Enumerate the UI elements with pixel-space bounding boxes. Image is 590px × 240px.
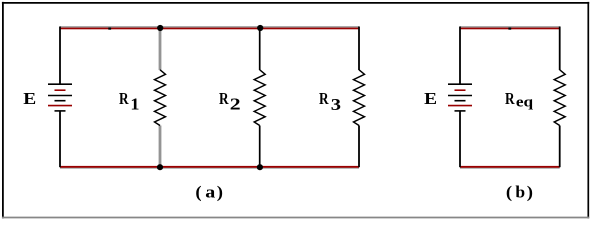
svg-text:3: 3 [331,95,341,114]
wire R3 right vertical bottom lead [358,126,360,168]
caption (b) [506,182,533,202]
wire Req bottom lead [559,126,561,168]
wire left vertical, battery E bottom lead (a) [59,111,61,167]
wire bottom bus of circuit (a) [60,166,359,169]
resistor R1 [155,70,166,126]
wire R2 branch bottom lead [259,126,261,167]
label R3 [319,90,341,115]
label R2 [219,90,241,114]
wire top bus of circuit (b) [460,26,560,30]
svg-text:(: ( [195,182,201,202]
wire left vertical, battery E top lead (b) [459,27,461,85]
svg-text:R: R [319,90,329,109]
node junction dot bottom R1 [157,164,163,170]
svg-text:E: E [424,89,437,108]
wire top bus of circuit (a) [60,26,359,30]
resistor Req [554,70,565,126]
node junction dot top R2 [257,25,263,31]
label R1 [119,90,139,114]
svg-text:R: R [119,90,129,109]
wire R1 branch top lead [159,28,162,70]
caption (a) [195,182,223,202]
svg-text:(: ( [506,182,512,202]
wire R3 right vertical top lead [358,27,360,71]
wire R2 branch top lead [259,28,261,70]
svg-text:b: b [515,183,525,202]
wire left vertical, battery E top lead (a) [59,27,61,85]
svg-text:): ) [217,182,223,202]
node junction dot bottom R2 [257,164,263,170]
wire R1 branch bottom lead [159,126,162,167]
battery E (b) [448,84,472,111]
label Req [505,90,533,111]
svg-text:eq: eq [516,94,533,110]
svg-text:R: R [219,90,229,109]
svg-text:a: a [205,183,216,202]
svg-text:E: E [23,89,36,108]
svg-text:1: 1 [130,94,139,113]
svg-text:R: R [505,90,515,109]
node junction dot top R1 [157,25,163,31]
wire bottom bus of circuit (b) [460,166,560,169]
wire Req top lead [559,27,561,71]
resistor R3 [354,70,365,126]
svg-text:): ) [527,182,533,202]
wire left vertical, battery E bottom lead (b) [459,111,461,167]
svg-text:2: 2 [230,96,241,114]
resistor R2 [254,70,265,126]
battery E (a) [48,84,72,111]
